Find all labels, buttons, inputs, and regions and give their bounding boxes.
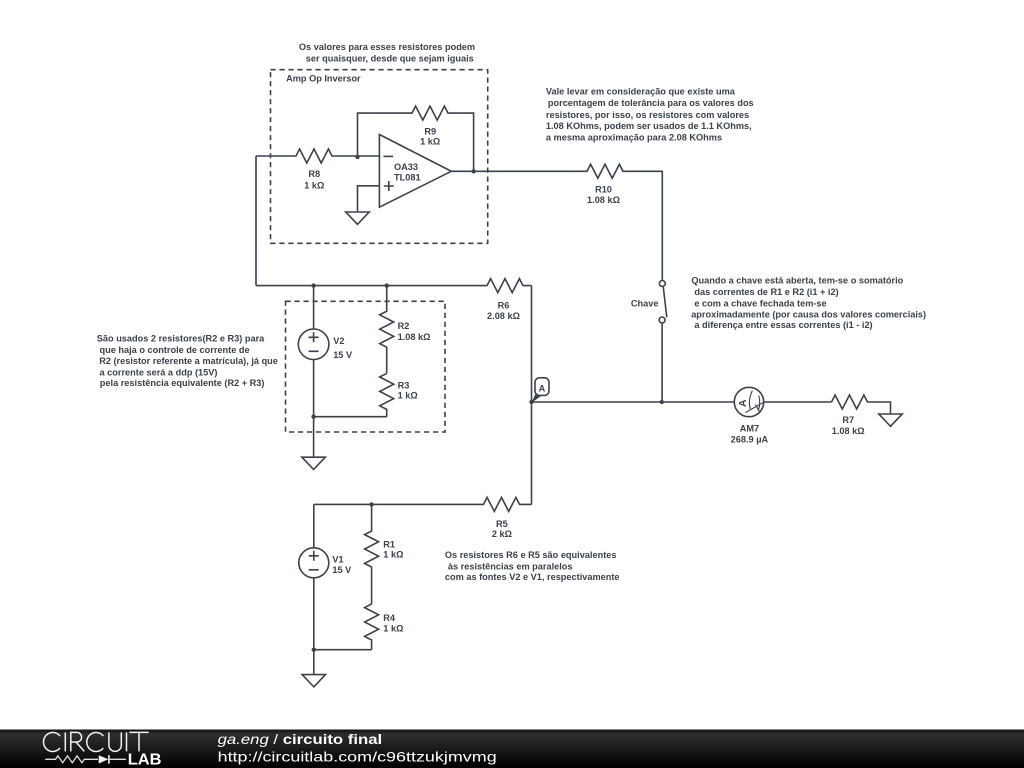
resistor R6 <box>256 279 532 321</box>
node (output junction) <box>471 169 475 173</box>
svg-text:R3: R3 <box>398 380 410 390</box>
svg-text:a corrente será a ddp (15V): a corrente será a ddp (15V) <box>100 367 218 377</box>
wire (V2 block bottom) <box>314 416 387 418</box>
svg-text:às resistências em paralelos: às resistências em paralelos <box>448 562 573 572</box>
svg-text:São usados 2 resistores(R2 e R: São usados 2 resistores(R2 e R3) para <box>97 333 265 343</box>
svg-text:das correntes de R1 e R2 (i1 +: das correntes de R1 e R2 (i1 + i2) <box>694 287 838 297</box>
node (V1 bottom) <box>312 648 316 652</box>
wire (switch to node) <box>661 323 663 402</box>
annotation: valores resistores <box>299 42 475 63</box>
svg-text:R6: R6 <box>498 301 510 311</box>
node (switch bottom junction) <box>660 400 664 404</box>
svg-text:V2: V2 <box>333 336 344 346</box>
svg-text:aproximadamente (por causa dos: aproximadamente (por causa dos valores c… <box>691 310 926 320</box>
switch Chave <box>631 281 667 324</box>
ground (below V1) <box>302 650 325 687</box>
svg-text:1 kΩ: 1 kΩ <box>304 181 324 191</box>
wire (main row) <box>532 401 832 403</box>
svg-text:R8: R8 <box>308 169 320 179</box>
resistor R5 <box>314 497 532 539</box>
svg-text:LAB: LAB <box>128 751 162 768</box>
svg-text:1 kΩ: 1 kΩ <box>383 550 403 560</box>
svg-text:Vale levar em consideração que: Vale levar em consideração que existe um… <box>546 86 736 96</box>
voltage source V2 <box>298 286 353 417</box>
node (feedback/input junction) <box>355 155 359 159</box>
CircuitLab logo CIRCUIT <box>43 732 148 751</box>
logo resistor+diode <box>45 755 126 764</box>
resistor R1 <box>365 504 404 604</box>
resistor R7 <box>832 395 891 436</box>
svg-text:15 V: 15 V <box>333 350 353 360</box>
svg-text:Amp Op Inversor: Amp Op Inversor <box>286 74 361 84</box>
svg-text:1 kΩ: 1 kΩ <box>383 624 403 634</box>
svg-text:Os valores para esses resistor: Os valores para esses resistores podem <box>299 42 475 52</box>
svg-text:A: A <box>738 399 749 407</box>
ground (op-amp + input) <box>346 186 380 225</box>
svg-text:V1: V1 <box>332 555 343 565</box>
resistor R8 <box>256 149 379 191</box>
svg-text:15 V: 15 V <box>332 565 352 575</box>
svg-text:Os resistores R6 e R5 são equi: Os resistores R6 e R5 são equivalentes <box>445 550 617 560</box>
node (V2 bottom) <box>311 415 315 419</box>
svg-text:R7: R7 <box>842 415 854 425</box>
svg-text:OA33: OA33 <box>394 162 418 172</box>
node (R1 top) <box>369 502 373 506</box>
node A flag <box>532 378 550 403</box>
wire (V1 block bottom) <box>314 649 372 651</box>
node (V2 top) <box>311 283 315 287</box>
svg-text:ser quaisquer, desde que sejam: ser quaisquer, desde que sejam iguais <box>306 53 474 63</box>
ground (after R7) <box>879 414 902 426</box>
wire (mid vertical) <box>531 286 533 505</box>
svg-text:R2: R2 <box>398 321 410 331</box>
op-amp U1 OA33 TL081 <box>379 135 451 208</box>
svg-text:1 kΩ: 1 kΩ <box>420 136 440 146</box>
ammeter AM7 <box>731 387 769 444</box>
node A junction dot <box>529 400 533 404</box>
svg-text:pela resistência equivalente (: pela resistência equivalente (R2 + R3) <box>100 378 265 388</box>
svg-text:a diferença entre essas corren: a diferença entre essas correntes (i1 - … <box>694 320 872 330</box>
svg-text:2.08 kΩ: 2.08 kΩ <box>487 311 520 321</box>
svg-text:Chave: Chave <box>631 299 659 309</box>
svg-text:A: A <box>539 384 546 394</box>
svg-text:R5: R5 <box>496 519 508 529</box>
svg-text:1.08 kΩ: 1.08 kΩ <box>398 332 431 342</box>
svg-text:R2 (resistor referente a matrí: R2 (resistor referente a matrícula), já … <box>99 356 278 366</box>
svg-text:R4: R4 <box>383 613 396 623</box>
ground (below V2) <box>302 417 325 470</box>
annotation: sao usados 2 resistores <box>97 333 278 388</box>
svg-text:AM7: AM7 <box>740 423 759 433</box>
annotation: quando a chave <box>691 276 926 331</box>
svg-text:ga.eng / circuito final: ga.eng / circuito final <box>218 731 383 747</box>
dashed box Amp Op Inversor <box>271 70 488 244</box>
voltage source V1 <box>299 504 352 649</box>
svg-text:com as fontes V2 e V1, respect: com as fontes V2 e V1, respectivamente <box>445 572 620 582</box>
resistor R3 <box>380 373 418 416</box>
svg-text:1.08 kΩ: 1.08 kΩ <box>832 426 865 436</box>
svg-text:R9: R9 <box>424 127 436 137</box>
svg-text:R10: R10 <box>595 185 612 195</box>
wire <box>255 156 257 286</box>
svg-text:2 kΩ: 2 kΩ <box>492 529 512 539</box>
node (R2 top) <box>385 283 389 287</box>
svg-text:R1: R1 <box>383 539 395 549</box>
svg-text:resistores, por isso, os resis: resistores, por isso, os resistores com … <box>546 110 749 120</box>
svg-text:1.08 KOhms, podem ser usados d: 1.08 KOhms, podem ser usados de 1.1 KOhm… <box>546 121 752 131</box>
svg-text:e com a chave fechada tem-se: e com a chave fechada tem-se <box>694 299 826 309</box>
resistor R4 <box>365 604 404 650</box>
svg-text:Quando a chave está aberta, te: Quando a chave está aberta, tem-se o som… <box>691 276 903 286</box>
footer bar <box>0 730 1024 768</box>
annotation: resistores equivalentes <box>445 550 620 582</box>
svg-text:http://circuitlab.com/c96ttzuk: http://circuitlab.com/c96ttzukjmvmg <box>218 749 497 765</box>
svg-text:que haja o controle de corrent: que haja o controle de corrente de <box>100 345 250 355</box>
annotation: tolerancia <box>546 86 754 142</box>
svg-text:1.08 kΩ: 1.08 kΩ <box>587 195 620 205</box>
dashed box V2 group <box>286 301 446 432</box>
resistor R10 <box>451 164 662 280</box>
svg-text:TL081: TL081 <box>394 173 421 183</box>
svg-text:268.9 µA: 268.9 µA <box>731 435 769 445</box>
svg-text:porcentagem de tolerância para: porcentagem de tolerância para os valore… <box>548 98 754 108</box>
svg-text:a mesma aproximação para 2.08: a mesma aproximação para 2.08 KOhms <box>546 132 722 142</box>
resistor R2 <box>380 286 431 374</box>
resistor R9 (feedback) <box>358 106 474 171</box>
svg-text:1 kΩ: 1 kΩ <box>398 390 418 400</box>
